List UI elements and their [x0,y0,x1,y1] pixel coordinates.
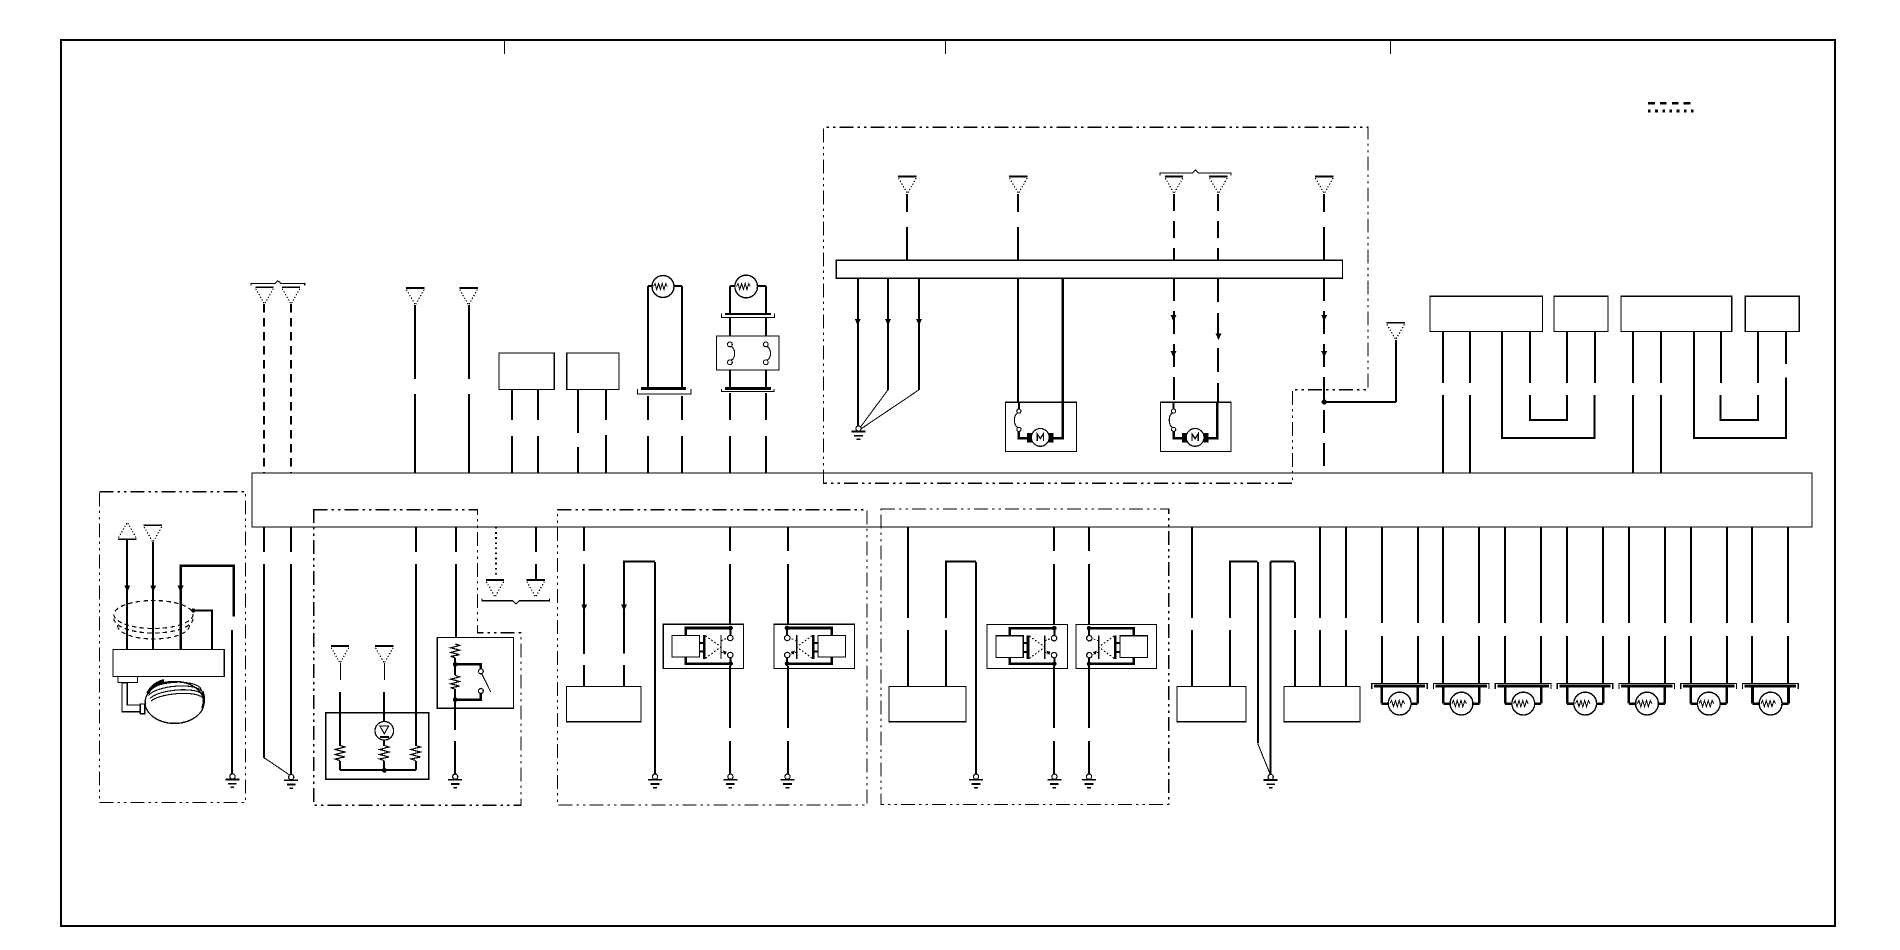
switch block J [437,638,513,709]
wire F2 lower [1017,227,1019,260]
connector triangle I4 [375,646,393,663]
horn driver block [140,704,145,714]
indicator bulb bar [380,736,389,738]
wire U-link2 inner right top [1757,332,1759,383]
wire E2 right mid [765,318,767,336]
ground horn [225,774,239,788]
wire horn-ground [231,630,233,774]
resistor I4 [380,745,390,760]
wire O loop2 right lower2 [1294,630,1296,686]
junction dot J1 [453,662,458,667]
wire motor1 left [1017,278,1019,404]
top border fold tick 3 [1390,40,1392,54]
splice marker on wire horn-2 [150,585,156,592]
wire K loop top [624,562,655,654]
switch bus bar [836,260,1342,278]
breaker hook E2 right [763,342,770,365]
wire R3-p1 part2 [1632,395,1634,473]
wire lamp7 right [1787,527,1789,623]
wire I1 part2 [415,564,417,746]
splice marker ground-1 [855,319,861,326]
wire L1 part2 [729,564,731,626]
wire lamp1 right part2 [1417,636,1419,683]
horn bell right shade [202,692,204,709]
wire D2-b [605,390,607,420]
wire lamp4 left part2 [1566,636,1568,683]
fuse block R2 [1554,296,1608,331]
splice marker m2-a [1171,315,1177,322]
overbrace for dashed pair [251,281,305,286]
resistor J2 [451,675,460,689]
tail lamp bulb 5 [1619,684,1675,715]
wire lamp3 left part2 [1504,636,1506,683]
connector bar E1 [637,389,691,394]
top border fold tick 1 [504,40,506,54]
unit box: left gauge unit (dash-dot) [558,510,867,805]
motor unit 2 [1160,402,1231,451]
wire horn-1 [126,540,128,651]
wire motor2 right dashed [1217,278,1219,404]
wire H2 [535,527,537,552]
unit box: meter/indicator assembly (dash-dot) [314,510,521,806]
wire dashed B2 [290,304,292,473]
wire O loop1 left lower [1229,630,1231,686]
wire F5 lower [1323,227,1325,260]
wire J below part2 [454,741,456,774]
wire U-link2 inner left [1720,332,1722,383]
wire lamp3 right [1540,527,1542,623]
wire H2 part2 [535,564,537,580]
wire E2 right stub [757,285,766,287]
unit box: right gauge unit (dash-dot) [881,509,1169,805]
splice marker K1 [581,604,587,611]
wire lamp2 right [1478,527,1480,623]
horn feed pipe [122,683,140,712]
resistor I5 [411,745,421,760]
ground O [1264,774,1278,788]
fuse block R4 [1745,296,1799,331]
wire lamp7 left [1751,527,1753,623]
wire C2 upper [468,305,470,379]
legend dashed-line sample [1648,102,1691,105]
wire U-link inner left [1529,332,1531,383]
transistor unit L1 [663,624,743,668]
wire F3 dashed [1173,194,1175,260]
wire motor1 right [1061,278,1064,404]
motor unit 1 [1006,402,1077,451]
wire K2 part3 [623,665,625,686]
wire N1 part2 [1053,564,1055,626]
wire R1-p2 [1469,332,1471,383]
wire D2-b part2 [605,435,607,473]
wire K loop ground leg [654,562,656,774]
wire N1 below [1053,666,1055,728]
splice marker ground-3 [916,319,922,326]
filament E1 [654,284,668,290]
wire L1 below part2 [729,741,731,774]
ground switch J [448,774,462,788]
wire M loop top [946,562,976,619]
coil ring lower arc [114,619,193,634]
splice marker K2 [621,604,627,611]
wire motor2 left dashed [1173,278,1175,404]
wire lamp3 right part2 [1540,636,1542,683]
wire lamp4 right part2 [1602,636,1604,683]
wire D1-b [537,390,539,420]
wire lamp7 left part2 [1751,636,1753,683]
wire E2 left below [729,393,731,420]
wire E1 right below part2 [681,436,683,473]
fuse block R1 [1430,296,1543,331]
wire D2-a part2 [577,447,579,473]
wire lamp2 left [1442,527,1444,623]
connector bar E2-top [721,314,774,318]
wire E1 left stub [648,285,652,287]
wire lamp6 right part2 [1726,636,1728,683]
tail lamp bulb 3 [1495,684,1551,715]
coil tap junction [191,608,195,612]
wire I3 to bus bar [339,761,341,770]
wire U-link inner left part2 [1530,395,1567,420]
meter lamp common bus [340,769,416,771]
switch contact J-bot [479,689,484,694]
wire L2 below part2 [787,741,789,774]
connector triangle F5 [1315,177,1333,194]
transistor unit N2 (mirrored) [1076,624,1156,668]
wire O2 [1319,527,1321,618]
wire F2 upper [1017,194,1019,212]
tail lamp bulb 6 [1681,684,1737,715]
unit box: horn assembly (dash-dot) [99,492,245,803]
underbrace H pair [482,599,550,605]
wire lamp6 right [1726,527,1728,623]
wire R3-p2 part2 [1660,395,1662,473]
horn bell spiral arc 2 [149,686,204,696]
indicator bulb I4 [375,722,394,741]
wire R1-p1 part2 [1442,395,1444,473]
wire F5 below bus dashed [1323,278,1325,473]
wire E2 left stub [730,285,735,287]
overbrace F3-F4 [1160,170,1231,175]
junction dot f5 [1322,399,1327,404]
wire lamp2 left part2 [1442,636,1444,683]
switch arm feed [455,664,481,669]
wire O2 part2 [1319,630,1321,686]
wire I2 to switch [455,527,457,552]
transistor unit N1 [987,624,1067,668]
connector triangle F2 [1009,177,1027,194]
wire D2-a [577,390,579,433]
wire N1 below part2 [1053,741,1055,774]
wire dashed B1 [263,304,265,473]
switch blade [482,674,491,692]
switch return [455,693,481,699]
wire B2 below bus part2 [290,564,292,774]
connector triangle I3 [331,646,349,663]
junction dot meter bus [382,768,387,773]
wire B2 below bus [290,527,292,552]
fuse block R3 [1621,296,1732,331]
wire M1 [907,527,909,618]
ground L1 [723,774,737,788]
wire E1 left below part2 [647,436,649,473]
connector triangle up A1 [118,523,136,540]
wire L2 below [787,666,789,728]
wire I3 lower [339,692,341,746]
wire I4 below bulb [383,740,385,746]
wire E1 right [681,286,683,390]
wire F4 dashed [1217,194,1219,260]
meter lamp block [326,713,429,780]
wire C1 lower [414,394,416,473]
coil ring lower arc 2 [118,626,190,640]
instrument block O-left [1177,686,1246,721]
wire N2 from bus [1088,527,1090,551]
connector triangle C2 [459,288,477,305]
wire C1 upper [414,305,416,379]
wire lamp5 left part2 [1628,636,1630,683]
wire E2 left below part2 [729,436,731,473]
wire R3-p2 [1660,332,1662,383]
wire lamp3 left [1504,527,1506,623]
wire lamp7 right part2 [1787,636,1789,683]
connector bar E2-top thick [725,313,771,315]
wire M1 part2 [907,630,909,686]
horn bell spiral arc 4 [151,693,204,701]
wire dotted H1 [495,527,497,577]
connector triangle F1 [898,177,916,194]
unit box: switch/motor assembly top (dash-dot) [823,127,1368,483]
wire horn-2 [152,542,154,651]
horn bell spiral arc 1 [148,682,202,692]
tail lamp bulb 7 [1743,684,1799,715]
wire lamp5 left [1628,527,1630,623]
wire O loop1 top [1230,562,1258,619]
junction dot J2 [453,697,458,702]
breaker hook E2 left [728,342,735,365]
wire ground-2 from switch bus [887,278,889,390]
wire E2 left mid [729,318,731,336]
connector triangle H1 [486,580,504,597]
ground lead diagonal 3 [861,390,919,429]
wire E2 left [729,286,731,315]
coil ring (dashed ellipse) [114,601,193,629]
wire lamp5 right [1664,527,1666,623]
ground N2 [1082,774,1096,788]
wire F1 lower [906,227,908,260]
wire F5 upper [1323,194,1325,212]
switch contact J-top [479,669,484,674]
wire B1 below bus part2 [263,564,265,758]
wire F1 upper [906,194,908,212]
wire K1 part3 [583,665,585,686]
connector triangle C1 [406,288,424,305]
wire L1 below [729,666,731,728]
wire M loop ground leg [975,562,977,774]
splice marker on wire horn-1 [124,585,130,592]
connector triangle F4 [1209,177,1227,194]
wire L1 from bus [729,527,731,551]
top border fold tick 2 [945,40,947,54]
wire horn-3 elbow [181,566,234,652]
wire lamp4 right [1602,527,1604,623]
wire f5 branch horizontal [1324,401,1396,403]
gauge block K [567,686,642,721]
wire B1 below bus [263,527,265,552]
wire I3 upper [340,663,342,680]
splice marker f5-a [1321,315,1327,322]
wire E1 left [647,286,649,390]
connector triangle H2 [526,580,544,597]
wire I1 into meter box [415,527,417,552]
wire E1 right stub [674,285,682,287]
wire B1 diagonal to ground [264,758,289,775]
connector triangle F3 [1165,177,1183,194]
ground B pair [284,775,298,789]
wire G1 [1395,340,1397,402]
wire R3-p1 [1632,332,1634,383]
wire lamp1 right [1417,527,1419,623]
splice marker on wire horn-3 [178,586,184,593]
wire L2 part2 [787,564,789,626]
wire E1 left below [647,396,649,420]
splice marker m2-c [1216,333,1222,340]
wire lamp4 left [1566,527,1568,623]
wire lamp5 right part2 [1664,636,1666,683]
tail lamp bulb 4 [1557,684,1613,715]
wire U-link2 inner left part2 [1721,395,1759,420]
gauge block M [889,686,966,721]
wire K1 [583,527,585,551]
wire ground-3 from switch bus [918,278,920,390]
breaker box E2 [717,336,780,370]
wire E2 right below [765,393,767,420]
wire lamp1 left [1381,527,1383,623]
wire O1 part2 [1191,630,1193,686]
ground switch assembly [852,426,866,440]
headlamp bulb E2 [735,275,758,298]
wire I4 lower [383,692,385,722]
wire E1 right below [681,396,683,420]
horn control unit block [113,649,224,676]
ground N1 [1047,774,1061,788]
wire I2 part2 [455,564,457,644]
wire N2 below part2 [1088,741,1090,774]
indicator bulb triangle [380,726,389,734]
main wire-harness bus bar [252,473,1812,527]
tail lamp bulb 2 [1434,684,1490,715]
wire lamp6 left [1690,527,1692,623]
wire N1 from bus [1053,527,1055,551]
splice marker m2-b [1171,351,1177,358]
connector bar E2-bot [721,389,774,392]
connector triangle G1 [1387,323,1405,340]
relay block D1 [499,353,554,390]
horn bell [145,681,204,723]
wire D1-b part2 [537,436,539,473]
wire M loop left lower [945,630,947,686]
wire E2 right [765,286,767,315]
coil tap wire [193,611,212,650]
wire ground-1 from switch bus [857,278,859,426]
filament E2 [737,284,751,290]
ground M [969,774,983,788]
wire O1 [1191,527,1193,618]
wire E2 left low [729,370,731,388]
wire O loop1 diagonal [1258,743,1270,773]
wire O loop2 top [1271,562,1295,775]
transistor unit L2 (mirrored) [774,624,854,668]
wire O loop1 ground leg [1257,562,1259,743]
wire I4 upper [384,663,386,680]
splice marker f5-b [1321,351,1327,358]
wire L2 from bus [787,527,789,551]
ground K [648,774,662,788]
headlamp bulb E1 [652,276,674,298]
splice marker ground-2 [885,319,891,326]
wire U-link inner right top [1566,332,1568,383]
ground L2 [781,774,795,788]
wire U-link2 outer right top [1785,332,1787,364]
wire C2 lower [468,394,470,473]
wire O3 [1345,527,1347,618]
connector bar E2-bot thick [725,387,771,390]
wire lamp6 left part2 [1690,636,1692,683]
connector bar E1 thick [641,387,686,390]
tail lamp bulb 1 [1372,684,1428,715]
wire lamp1 left part2 [1381,636,1383,683]
wire E2 right low [765,370,767,388]
horn bell spiral shade [148,681,164,694]
ground lead diagonal 2 [860,390,888,428]
horn bell spiral arc 3 [150,690,204,699]
resistor I3 [335,745,345,760]
wire K1 part2 [583,564,585,654]
connector triangle B2 [282,287,300,304]
wire I5 to bus bar [415,761,417,770]
resistor J1 [451,644,460,658]
wire U-link outer right top [1594,332,1596,383]
wire U-link outer left [1502,332,1594,438]
wire J below [454,700,456,730]
wire lamp2 right part2 [1478,636,1480,683]
wire N2 part2 [1088,564,1090,626]
wire O loop2 right lower [1294,562,1296,618]
wire R1-p1 [1442,332,1444,383]
instrument block O-right [1284,686,1360,721]
wire R1-p2 part2 [1469,395,1471,473]
wire I4 to bus bar [383,761,385,770]
wire E2 right below part2 [765,436,767,473]
wire D1-a part2 [511,436,513,473]
connector triangle B1 [255,287,273,304]
wire J mid1 [454,658,456,675]
horn unit tab [118,676,138,682]
legend dotted-line sample [1648,110,1694,113]
wire N2 below [1088,666,1090,728]
wire U-link2 outer [1694,332,1786,438]
wire O3 part2 [1345,630,1347,686]
wire J mid2 [454,689,456,700]
wire D1-a [511,390,513,420]
connector triangle A2 [144,525,162,542]
relay block D2 [567,353,619,390]
